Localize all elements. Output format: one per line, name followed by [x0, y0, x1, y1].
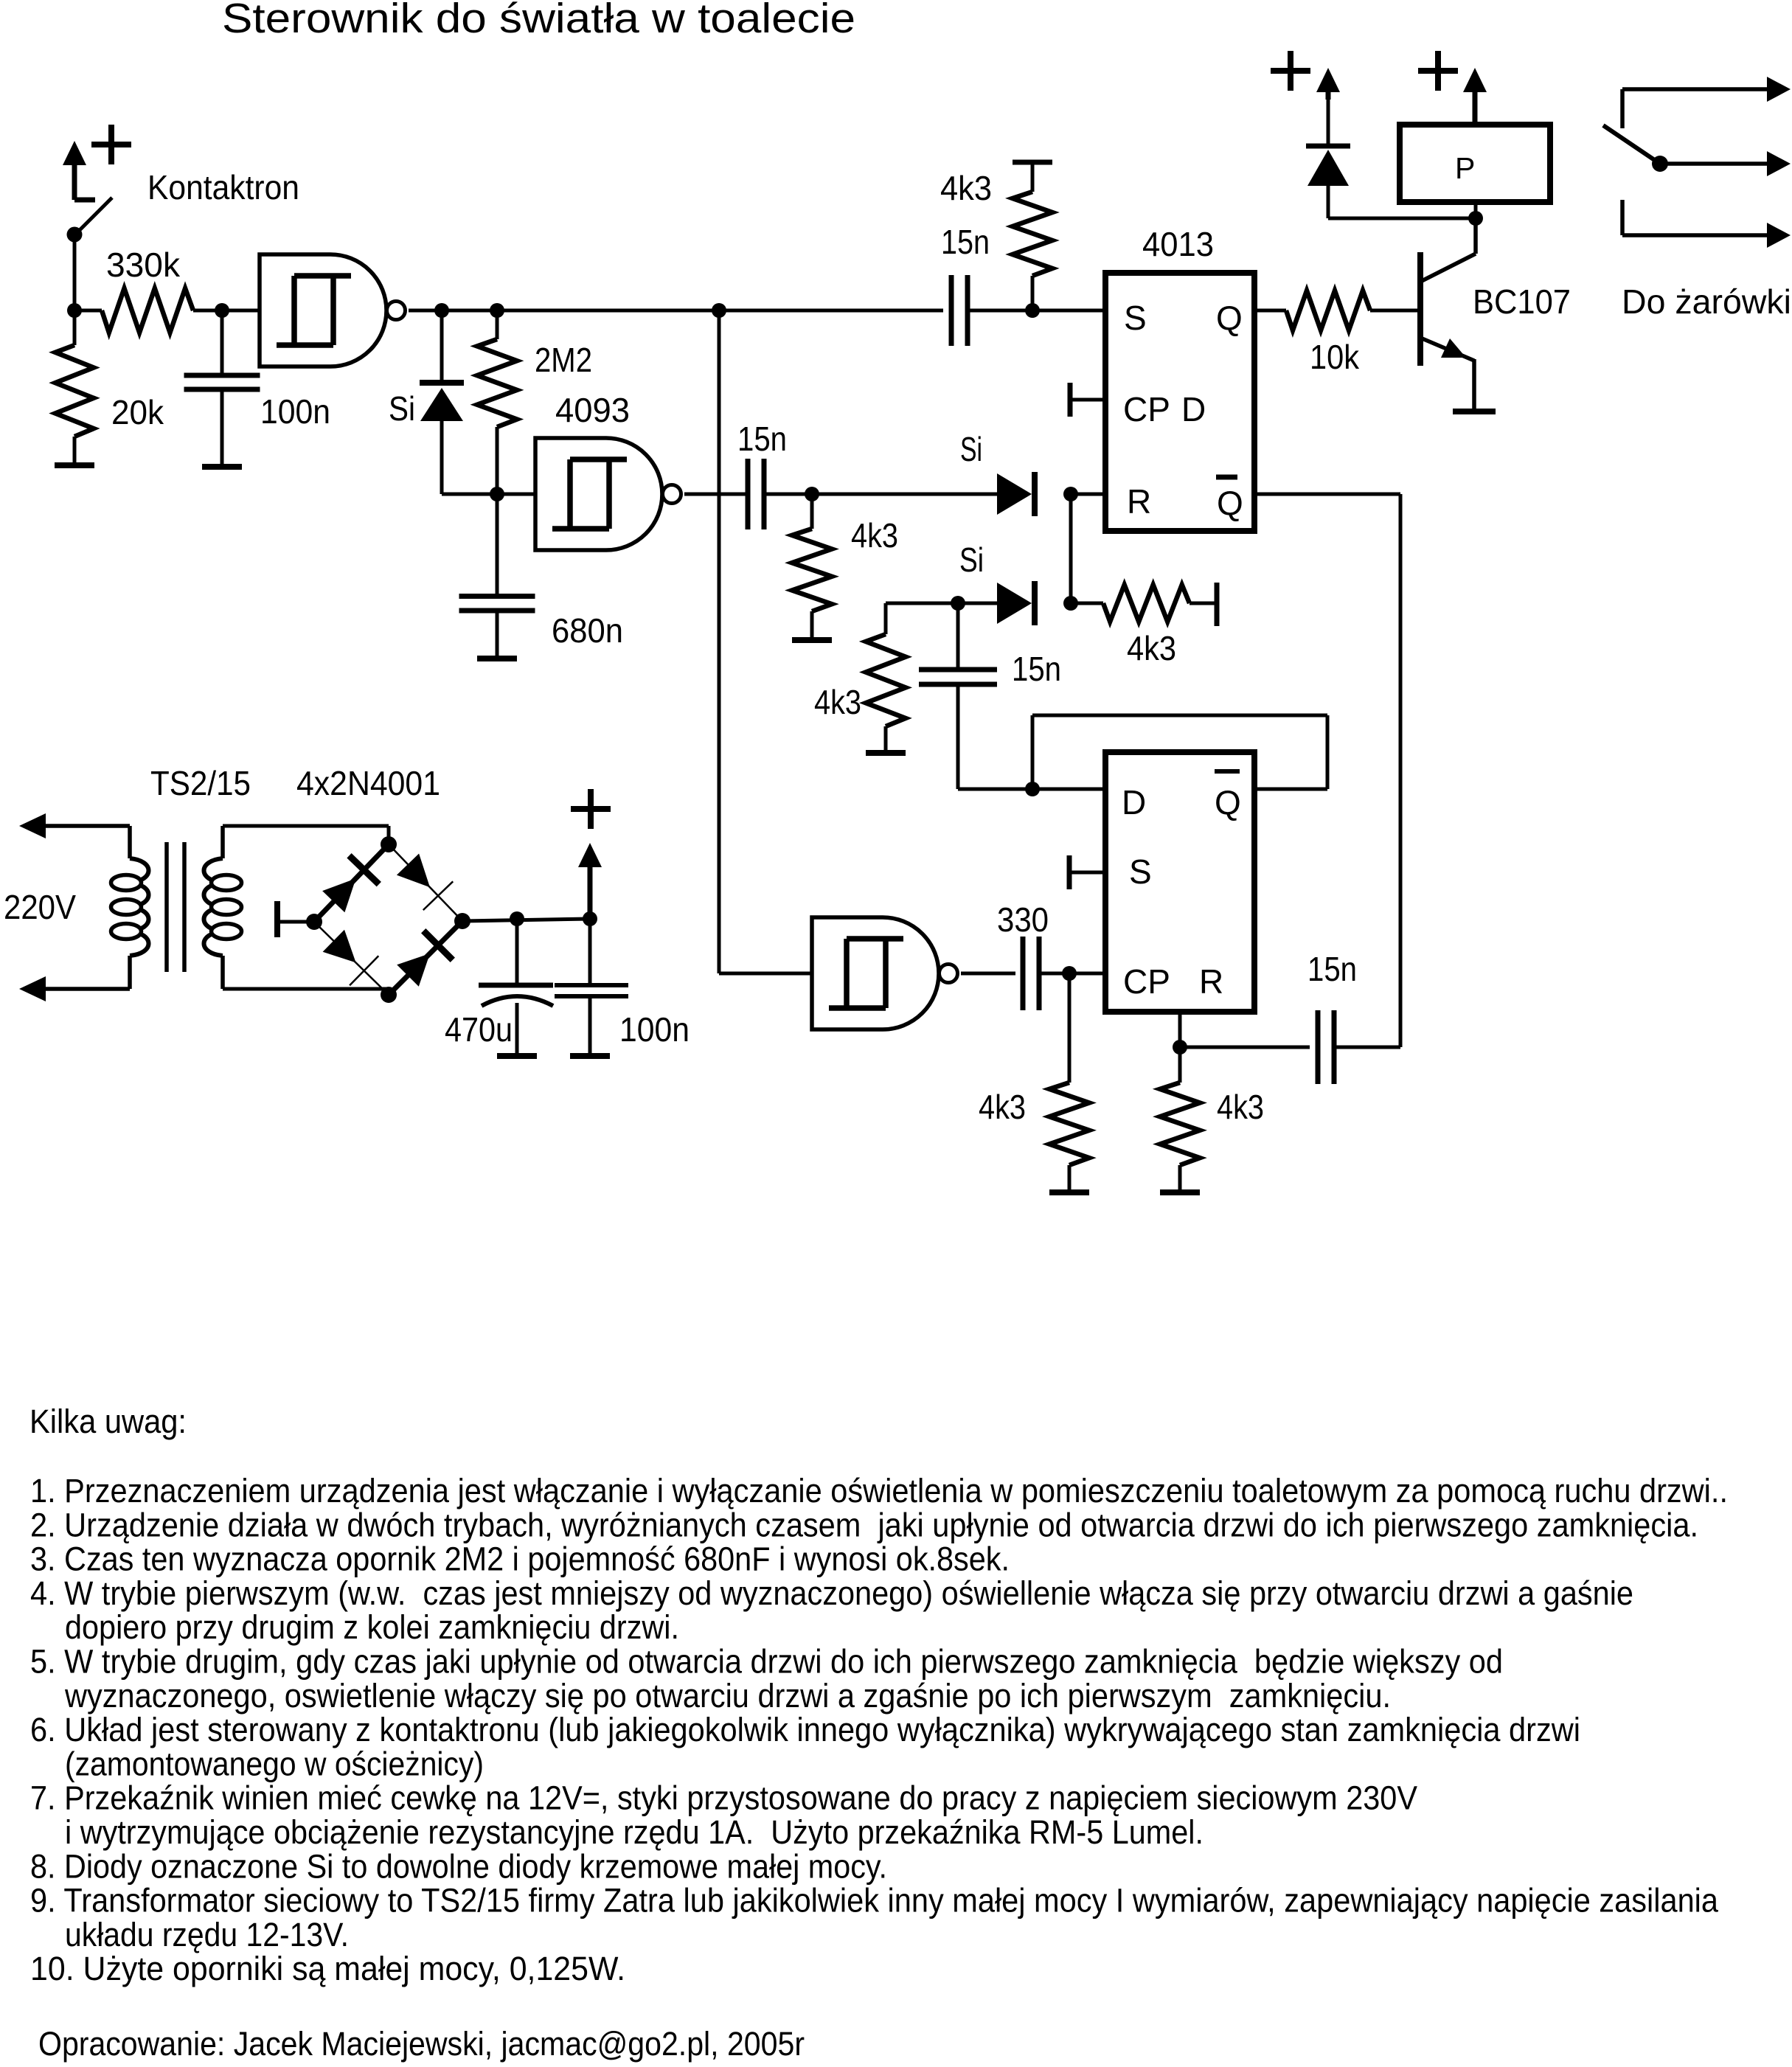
pin label D (U2B)	[1122, 783, 1146, 821]
wire C3 to U2A S input	[968, 309, 1105, 313]
svg-text:4x2N4001: 4x2N4001	[296, 764, 440, 802]
power +V arrow (flyback)	[1316, 68, 1340, 100]
bridge node top dot	[381, 836, 397, 852]
svg-text:15n: 15n	[1012, 650, 1061, 688]
wire bridge plus rail	[462, 919, 590, 921]
notes list text	[30, 1472, 1728, 1987]
bridge diode D4 (left-top edge)	[314, 844, 389, 922]
bridge node bottom dot	[381, 987, 397, 1003]
label 330 (C6)	[997, 900, 1049, 939]
node A junction dot	[67, 303, 82, 318]
label TS2/15	[150, 764, 251, 802]
node M junction dot (CP node)	[1062, 966, 1077, 981]
resistor R4 4k3 (pull-up)	[1013, 162, 1052, 310]
capacitor C5 15n (x1299)	[919, 603, 1105, 789]
svg-text:R: R	[1199, 962, 1223, 1001]
svg-text:2. Urządzenie działa w dwóch t: 2. Urządzenie działa w dwóch trybach, wy…	[30, 1506, 1698, 1543]
resistor R5 10k	[1254, 291, 1419, 330]
bridge node right dot	[454, 913, 470, 929]
plus sign (kontaktron supply)	[91, 125, 131, 164]
svg-text:D: D	[1181, 390, 1206, 428]
svg-text:8. Diody oznaczone Si to dowol: 8. Diody oznaczone Si to dowolne diody k…	[30, 1847, 887, 1885]
reed switch S1 Kontaktron blade	[67, 198, 113, 243]
label Si (D1)	[389, 389, 415, 428]
wire U1A output rail	[409, 309, 943, 313]
ground (under R7)	[866, 750, 906, 756]
svg-text:BC107: BC107	[1473, 282, 1571, 321]
wire flyback to collector node	[1328, 217, 1476, 220]
svg-text:4k3: 4k3	[940, 169, 992, 207]
pin label R (U2A)	[1127, 482, 1151, 521]
ground (under C1)	[202, 464, 242, 470]
label 4093	[555, 391, 630, 429]
label Kontaktron	[147, 168, 299, 206]
svg-text:Si: Si	[960, 430, 982, 468]
svg-text:4. W trybie pierwszym (w.w. c: 4. W trybie pierwszym (w.w. czas jest mn…	[30, 1574, 1633, 1612]
label 100n (C9)	[619, 1010, 690, 1049]
label 20k	[111, 393, 164, 431]
svg-text:1. Przeznaczeniem urządzenia j: 1. Przeznaczeniem urządzenia jest włącza…	[30, 1472, 1728, 1510]
svg-text:4k3: 4k3	[1217, 1088, 1264, 1126]
svg-text:Q: Q	[1215, 783, 1241, 821]
bridge diode D6 (left-bottom edge)	[314, 922, 389, 995]
label 4k3 (R4)	[940, 169, 992, 207]
svg-text:10. Użyte oporniki są małej mo: 10. Użyte oporniki są małej mocy, 0,125W…	[30, 1950, 625, 1987]
footer credit text	[38, 2025, 805, 2063]
label 330k	[106, 246, 181, 284]
terminal bar (R8 right end)	[1215, 583, 1220, 626]
mains arrow lower (220V)	[19, 976, 130, 1001]
svg-text:układu rzędu 12-13V.: układu rzędu 12-13V.	[65, 1916, 349, 1953]
pin label S (U2A)	[1124, 299, 1147, 337]
schmitt NAND gate U1B (4093)	[535, 438, 681, 550]
wire U2A R node down to D3 row	[1069, 494, 1073, 603]
node I junction dot (after D2)	[1063, 487, 1078, 501]
ground (under R10)	[1160, 1189, 1200, 1195]
transformer T1 primary winding	[111, 826, 149, 989]
svg-text:CP: CP	[1123, 962, 1170, 1001]
capacitor C2 680n	[459, 494, 535, 659]
node F junction dot (R4 bottom)	[1025, 303, 1040, 318]
label 220V	[4, 888, 76, 926]
svg-text:20k: 20k	[111, 393, 164, 431]
label BC107	[1473, 282, 1571, 321]
svg-text:4013: 4013	[1142, 225, 1214, 263]
label 15n (C4)	[737, 420, 787, 458]
label 15n (C7)	[1307, 950, 1357, 988]
label 4013	[1142, 225, 1214, 263]
node Q junction dot (C8 top)	[510, 911, 524, 926]
svg-text:3. Czas ten wyznacza opornik 2: 3. Czas ten wyznacza opornik 2M2 i pojem…	[30, 1540, 1010, 1578]
svg-text:330: 330	[997, 900, 1049, 939]
label 100n (C1)	[260, 392, 330, 431]
title text	[222, 0, 855, 42]
svg-text:680n: 680n	[552, 611, 623, 650]
pin label Qbar (U2A)	[1216, 477, 1243, 522]
svg-text:4k3: 4k3	[851, 516, 898, 555]
svg-text:Kilka uwag:: Kilka uwag:	[29, 1403, 187, 1440]
diode D1 Si (vertical)	[420, 310, 464, 494]
label Do żarówki	[1622, 282, 1791, 321]
svg-text:S: S	[1124, 299, 1147, 337]
power +V arrow (relay)	[1463, 68, 1487, 125]
svg-text:Kontaktron: Kontaktron	[147, 168, 299, 206]
bridge diode D5 (top-right edge)	[389, 844, 462, 921]
svg-text:9. Transformator sieciowy to T: 9. Transformator sieciowy to TS2/15 firm…	[30, 1882, 1719, 1920]
contact S2 lower throw	[1622, 200, 1791, 248]
ground (under R6)	[792, 637, 832, 643]
node L junction dot (D input)	[1025, 782, 1040, 796]
svg-text:4k3: 4k3	[814, 683, 861, 721]
label 2M2	[535, 341, 592, 379]
transformer T1 secondary winding	[204, 826, 242, 989]
svg-text:5. W trybie drugim, gdy czas j: 5. W trybie drugim, gdy czas jaki upłyni…	[30, 1643, 1503, 1681]
pin label Qbar (U2B)	[1215, 771, 1241, 821]
node R junction dot (C9 top)	[583, 911, 597, 926]
svg-text:100n: 100n	[619, 1010, 690, 1049]
wire secondary bottom to bridge	[223, 989, 389, 995]
resistor R9 4k3 (under CP node)	[1049, 973, 1089, 1192]
node B junction dot	[215, 303, 229, 318]
resistor R1 330k	[74, 288, 222, 333]
resistor R6 4k3 (to gnd bar)	[792, 494, 832, 640]
long wire node G down to U1C	[719, 310, 812, 973]
contact S2 upper throw	[1622, 77, 1791, 128]
node N junction dot (R node)	[1173, 1040, 1187, 1055]
svg-text:R: R	[1127, 482, 1151, 521]
resistor R10 4k3 (under R node)	[1160, 1047, 1200, 1192]
power +V arrow (DC rail)	[578, 843, 602, 919]
node H junction dot (R6 top)	[805, 487, 819, 501]
svg-text:P: P	[1455, 151, 1475, 185]
transistor Q1 BC107	[1420, 218, 1476, 411]
capacitor C6 330 (series)	[961, 937, 1039, 1010]
transformer T1 core	[167, 842, 184, 972]
wire switch to node A	[73, 235, 77, 310]
terminal bar (bridge minus)	[277, 901, 314, 937]
diode D8 flyback	[1306, 94, 1350, 218]
svg-text:2M2: 2M2	[535, 341, 592, 379]
label 4x2N4001	[296, 764, 440, 802]
pin label CP (U2A)	[1123, 390, 1170, 428]
svg-text:470u: 470u	[445, 1010, 513, 1049]
svg-text:wyznaczonego, oswietlenie włąc: wyznaczonego, oswietlenie włączy się po …	[64, 1677, 1391, 1715]
diode D3 Si (second row)	[997, 581, 1035, 625]
label 15n (C5)	[1012, 650, 1061, 688]
heading Kilka uwag:	[29, 1403, 187, 1440]
svg-text:Si: Si	[389, 389, 415, 428]
set input tick (U2B S)	[1069, 855, 1105, 889]
label 4k3 (R9)	[979, 1088, 1026, 1126]
capacitor C9 100n	[555, 919, 628, 1056]
capacitor C1 100n	[184, 310, 260, 467]
pin label CP (U2B)	[1123, 962, 1170, 1001]
resistor R2 20k	[55, 310, 94, 465]
ground (under C2)	[477, 656, 517, 661]
wire node B to U1A input	[222, 309, 260, 313]
node C junction dot (D1 top)	[434, 303, 449, 318]
bridge node left dot	[306, 914, 322, 930]
capacitor C3 15n (series, top rail)	[951, 275, 968, 346]
power +V arrow (kontaktron supply)	[63, 141, 95, 200]
relay K1 coil box P	[1400, 125, 1550, 202]
label 4k3 (R6)	[851, 516, 898, 555]
wire relay to collector node	[1474, 202, 1478, 218]
wire D1/R3 to U1B	[442, 493, 535, 496]
label 10k	[1310, 338, 1360, 376]
svg-text:dopiero przy drugim z kolei za: dopiero przy drugim z kolei zamknięciu d…	[65, 1608, 679, 1646]
svg-text:220V: 220V	[4, 888, 76, 926]
resistor R8 4k3 (horizontal after D3)	[1071, 585, 1217, 622]
IC U2A 4013 box	[1105, 273, 1254, 531]
wire secondary top to bridge	[223, 826, 389, 844]
label Si (D2)	[960, 430, 982, 468]
clock input tick (U2A CP)	[1070, 383, 1105, 417]
node J junction dot (after D3)	[1063, 596, 1078, 611]
label 470u	[445, 1010, 513, 1049]
svg-text:15n: 15n	[941, 223, 990, 261]
svg-text:i wytrzymujące obciążenie rezy: i wytrzymujące obciążenie rezystancyjne …	[65, 1813, 1204, 1851]
ground (under C8)	[497, 1053, 537, 1059]
ground (emitter Q1)	[1453, 409, 1496, 414]
wire Qbar U2A to C7 (long vertical)	[1254, 494, 1400, 1047]
svg-text:Do żarówki: Do żarówki	[1622, 282, 1791, 321]
ground (under C9)	[570, 1053, 610, 1059]
svg-text:Q: Q	[1217, 484, 1243, 522]
label 4k3 (R10)	[1217, 1088, 1264, 1126]
svg-text:6. Układ jest sterowany z kont: 6. Układ jest sterowany z kontaktronu (l…	[30, 1711, 1580, 1748]
wire D3 row left segment	[886, 602, 997, 605]
svg-text:15n: 15n	[1307, 950, 1357, 988]
schmitt NAND gate U1C (4093)	[812, 917, 958, 1029]
wire U2B R pin down	[1178, 1012, 1182, 1047]
schmitt NAND gate U1A (4093)	[260, 254, 406, 366]
pin label S (U2B)	[1129, 852, 1152, 891]
svg-text:CP: CP	[1123, 390, 1170, 428]
svg-text:TS2/15: TS2/15	[150, 764, 251, 802]
capacitor C4 15n (series, U1B out)	[684, 459, 764, 529]
label 4k3 (R7)	[814, 683, 861, 721]
feedback loop Qbar to D	[1032, 715, 1327, 789]
pin label Q (U2A)	[1216, 299, 1243, 337]
svg-text:4093: 4093	[555, 391, 630, 429]
svg-text:Q: Q	[1216, 299, 1243, 337]
plus sign (DC rail)	[571, 789, 611, 829]
svg-text:Sterownik do światła w toaleci: Sterownik do światła w toalecie	[222, 0, 855, 42]
IC U2B 4013 box	[1105, 752, 1254, 1012]
pin label D (U2A)	[1181, 390, 1206, 428]
svg-text:15n: 15n	[737, 420, 787, 458]
svg-text:D: D	[1122, 783, 1146, 821]
node K junction dot (C5/D3 anode)	[951, 596, 965, 611]
pin label R (U2B)	[1199, 962, 1223, 1001]
node G junction dot (vertical feed)	[712, 303, 726, 318]
label P (relay)	[1455, 151, 1475, 185]
svg-text:S: S	[1129, 852, 1152, 891]
capacitor C7 15n (series, R row)	[1180, 1010, 1400, 1084]
svg-text:100n: 100n	[260, 392, 330, 431]
svg-text:Opracowanie: Jacek Maciejewski: Opracowanie: Jacek Maciejewski, jacmac@g…	[38, 2025, 805, 2063]
svg-text:4k3: 4k3	[1127, 629, 1176, 667]
plus sign (flyback)	[1271, 51, 1310, 91]
plus sign (relay)	[1418, 51, 1458, 91]
svg-text:Si: Si	[959, 541, 984, 579]
svg-text:330k: 330k	[106, 246, 181, 284]
label Si (D3)	[959, 541, 984, 579]
bridge diode D7 (bottom-right edge)	[389, 921, 462, 995]
ground (under R9)	[1049, 1189, 1089, 1195]
label 680n	[552, 611, 623, 650]
resistor R3 2M2	[477, 310, 517, 494]
node E junction dot (U1B input)	[490, 487, 504, 501]
node D junction dot (R3 top)	[490, 303, 504, 318]
capacitor C8 470u electrolytic	[479, 919, 553, 1056]
ground (under R2)	[55, 462, 94, 468]
label 4k3 (R8)	[1127, 629, 1176, 667]
diode D2 Si (to R input)	[997, 472, 1035, 516]
resistor R7 4k3 (to gnd, x1201)	[866, 603, 906, 753]
svg-text:10k: 10k	[1310, 338, 1360, 376]
label 15n (C3)	[941, 223, 990, 261]
wire C6 to U2B CP	[1039, 972, 1105, 976]
svg-text:7. Przekaźnik winien mieć cewk: 7. Przekaźnik winien mieć cewkę na 12V=,…	[30, 1779, 1417, 1817]
node P junction dot (collector)	[1468, 211, 1483, 226]
svg-text:(zamontowanego w ościeżnicy): (zamontowanego w ościeżnicy)	[65, 1745, 484, 1782]
wire D2 to U2A R input	[1071, 493, 1105, 496]
mains arrow upper (220V)	[19, 813, 130, 838]
svg-text:4k3: 4k3	[979, 1088, 1026, 1126]
wire C4 to diode D2	[764, 493, 997, 496]
contact S2 blade and pole	[1603, 125, 1791, 176]
